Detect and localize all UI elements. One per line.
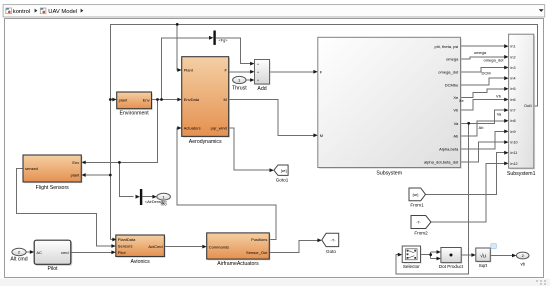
wire plant feedback loop (Subsystem1 Out1 to left rail)	[110, 24, 537, 239]
svg-text:AC: AC	[36, 250, 42, 255]
svg-text:Avionics: Avionics	[130, 259, 150, 265]
arrowhead into Goto	[317, 238, 321, 242]
arrowhead into Aerodynamics EnvData	[177, 98, 181, 102]
goto tag Goto1	[274, 165, 289, 182]
arrowhead into In6	[504, 98, 508, 102]
arrowhead into Add in3	[250, 78, 254, 82]
svg-text:Actuators: Actuators	[184, 126, 201, 131]
arrowhead into In5	[504, 87, 508, 91]
arrowhead into In3	[504, 66, 508, 70]
block Environment	[117, 92, 153, 117]
wire Aerodynamics M to Subsystem M	[229, 100, 315, 136]
svg-text:[wr]: [wr]	[413, 193, 419, 197]
wire phi theta psi to In1	[461, 45, 506, 47]
arrowhead into AirframeActuators Commands	[202, 245, 206, 249]
arrowhead into In2	[504, 55, 508, 59]
wire AirDensity selector to rho outport	[142, 196, 153, 198]
wire Alt cmd to Pilot AC	[26, 251, 31, 253]
svg-text:omega_dot: omega_dot	[483, 58, 504, 63]
junction on Va wire Selector tap	[467, 122, 470, 125]
svg-text:√u: √u	[480, 252, 486, 259]
arrowhead into Add in1	[250, 62, 254, 66]
wire Add output to Subsystem F	[270, 71, 315, 73]
arrowhead into Goto1	[270, 168, 274, 172]
wire Env bus to Aerodynamics EnvData	[152, 99, 179, 101]
wire plant rail to Avionics PlantData	[110, 239, 112, 241]
arrowhead into Pilot AC	[30, 250, 34, 254]
svg-text:cmd: cmd	[61, 250, 69, 255]
svg-text:Va: Va	[454, 121, 459, 126]
junction on Flight Sensors Env wire AirDensity tap	[118, 161, 121, 164]
wire From2 to In12	[431, 163, 505, 222]
svg-text:In7: In7	[510, 109, 515, 113]
wire Ab to In8	[461, 121, 506, 136]
svg-text:Thrust: Thrust	[232, 86, 247, 92]
svg-text:Dot Product: Dot Product	[439, 264, 464, 269]
wire Env bus up-tap to Fg selector	[162, 38, 211, 100]
svg-text:Alpha,beta: Alpha,beta	[439, 147, 459, 152]
wire Aerodynamics pqr_wind to Goto1	[229, 128, 271, 170]
svg-text:Vb: Vb	[453, 108, 459, 113]
badge next to Sqrt	[491, 244, 497, 249]
svg-text:Aerodynamics: Aerodynamics	[189, 139, 222, 145]
status strip below canvas	[0, 279, 550, 286]
svg-text:Goto: Goto	[326, 249, 336, 254]
block Subsystem	[318, 37, 462, 176]
wire Fg selector to Add in1	[216, 38, 252, 64]
svg-text:M: M	[320, 133, 323, 138]
svg-text:Positions: Positions	[251, 237, 267, 242]
wire Va to In7	[461, 110, 506, 123]
svg-text:Add: Add	[257, 86, 266, 92]
arrowhead into Avionics Sensors	[111, 244, 115, 248]
svg-text:In1: In1	[510, 45, 515, 49]
svg-text:alpha_dot,beta_dot: alpha_dot,beta_dot	[424, 159, 459, 164]
svg-text:<Fg>: <Fg>	[219, 38, 229, 43]
resize grip	[536, 280, 546, 285]
svg-text:Flight Sensors: Flight Sensors	[36, 185, 70, 191]
arrowhead into Subsystem F	[313, 70, 317, 74]
junction on plant feedback at Aerodynamics branch	[176, 23, 179, 26]
svg-text:In6: In6	[510, 98, 515, 102]
svg-text:EnvData: EnvData	[184, 97, 200, 102]
arrowhead into Environment plant	[112, 98, 116, 102]
block Avionics	[116, 235, 166, 265]
svg-text:-T-: -T-	[331, 238, 337, 243]
arrowhead into In10	[504, 140, 508, 144]
svg-text:Plant: Plant	[184, 68, 194, 73]
breadcrumb separator 2	[81, 9, 84, 13]
svg-text:Sqrt: Sqrt	[479, 263, 488, 268]
svg-text:Xe: Xe	[459, 98, 465, 103]
wire DCMbe to In4	[461, 78, 506, 85]
wire Selector out split to Dot Product	[421, 252, 438, 259]
arrowhead into Aerodynamics Actuators	[177, 126, 181, 130]
wire Thrust inport to Add in3	[246, 79, 251, 81]
svg-text:In11: In11	[510, 151, 517, 155]
outport 2 vb	[516, 252, 529, 266]
bus selector AirDensity	[140, 189, 168, 205]
svg-text:ActCmd: ActCmd	[148, 244, 162, 249]
block AirframeActuators	[207, 233, 271, 267]
junction on Env bus up-tap	[160, 98, 163, 101]
wire plant rail branch to Environment plant	[110, 99, 113, 101]
svg-text:Out1: Out1	[524, 104, 532, 108]
svg-text:In9: In9	[510, 130, 515, 134]
block Aerodynamics	[182, 57, 230, 145]
svg-text:vb: vb	[520, 262, 525, 267]
svg-text:omega: omega	[446, 57, 459, 62]
svg-text:AirframeActuators: AirframeActuators	[217, 261, 259, 267]
svg-text:In3: In3	[510, 66, 515, 70]
goto tag Goto	[322, 233, 339, 254]
wire Env bus down-tap to Flight Sensors Env	[85, 100, 158, 163]
svg-text:DCMbe: DCMbe	[445, 82, 459, 87]
arrowhead into Add in2	[250, 70, 254, 74]
arrowhead into Sqrt	[471, 253, 475, 257]
block Selector	[402, 246, 421, 269]
svg-text:DCM: DCM	[481, 70, 490, 75]
arrowhead into Dot Product in2	[437, 257, 441, 261]
block Add	[255, 60, 271, 93]
svg-text:Vb: Vb	[496, 94, 502, 99]
arrowhead into Aerodynamics Plant	[177, 68, 181, 72]
svg-text:+: +	[257, 71, 259, 75]
svg-text:plant: plant	[71, 173, 81, 178]
arrowhead into In7	[504, 108, 508, 112]
arrowhead into In4	[504, 76, 508, 80]
wire Avionics ActCmd to AirframeActuators Commands	[164, 246, 203, 248]
arrowhead into In1	[504, 44, 508, 48]
svg-text:+: +	[257, 79, 259, 83]
svg-text:In12: In12	[510, 162, 517, 166]
svg-text:From1: From1	[410, 203, 424, 208]
svg-text:Commands: Commands	[209, 244, 229, 249]
junction on Env bus down-tap	[156, 98, 159, 101]
arrowhead into vb outport	[512, 254, 516, 258]
svg-text:In10: In10	[510, 141, 517, 145]
svg-text:PlantData: PlantData	[118, 237, 136, 242]
block Flight Sensors	[23, 155, 83, 191]
from tag From1	[409, 188, 426, 208]
svg-text:In2: In2	[510, 55, 515, 59]
wire Sqrt to vb outport	[490, 255, 513, 257]
arrowhead into In12	[504, 162, 508, 166]
wire alpha_dot beta_dot to In10	[461, 142, 506, 162]
wire Dot Product to Sqrt	[461, 254, 472, 256]
outport 1 rho	[157, 193, 171, 206]
wire Positions feedback to Aerodynamics Actuators	[177, 128, 276, 240]
inport 2 Alt cmd	[10, 248, 27, 262]
arrowhead into Subsystem M	[313, 133, 317, 137]
arrowhead into In8	[504, 119, 508, 123]
wire omega to In2	[461, 57, 506, 59]
svg-text:Goto1: Goto1	[276, 177, 289, 182]
svg-text:omega_dot: omega_dot	[438, 70, 459, 75]
block Sqrt	[476, 248, 492, 268]
bus selector Fg	[213, 31, 228, 45]
svg-text:Subsystem: Subsystem	[376, 171, 402, 177]
breadcrumb model icon 1	[6, 8, 12, 14]
svg-text:Sensors: Sensors	[118, 244, 133, 249]
junction on plant rail at Flight Sensors branch	[109, 174, 112, 177]
svg-text:Alt cmd: Alt cmd	[10, 257, 27, 263]
breadcrumb model icon 2	[40, 8, 46, 14]
svg-text:Environment: Environment	[120, 111, 150, 117]
svg-text:omega: omega	[474, 50, 487, 55]
arrowhead into Avionics PlantData	[112, 238, 116, 242]
svg-text:rho: rho	[161, 202, 168, 207]
svg-text:Sensor_Out: Sensor_Out	[246, 250, 268, 255]
svg-text:Pilot: Pilot	[47, 266, 58, 272]
svg-text:Selector: Selector	[403, 264, 420, 269]
wire omega_dot to In3	[461, 68, 506, 73]
svg-text:pqr_wind: pqr_wind	[211, 126, 227, 131]
svg-text:phi, theta, psi: phi, theta, psi	[435, 44, 459, 49]
arrowhead into AirDensity bus selector	[136, 195, 140, 199]
svg-text:In5: In5	[510, 87, 515, 91]
block Dot Product	[439, 248, 464, 270]
svg-text:Ab: Ab	[479, 125, 485, 130]
svg-text:sensed: sensed	[25, 166, 38, 171]
arrowhead into Fg bus selector	[209, 36, 213, 40]
svg-text:From2: From2	[414, 230, 428, 235]
arrowhead into Flight Sensors plant	[81, 173, 85, 177]
svg-text:Env: Env	[72, 160, 79, 165]
junction on Selector output split	[429, 253, 432, 256]
wire Aerodynamics F to Add in2	[229, 71, 252, 73]
wire plant rail branch to Flight Sensors plant	[85, 174, 111, 176]
wire Vb to In6	[461, 100, 506, 111]
svg-text:In8: In8	[510, 119, 515, 123]
junction on plant rail at Environment branch	[109, 98, 112, 101]
wire plant rail branch to Aerodynamics Plant	[177, 24, 178, 70]
arrowhead into Dot Product in1	[437, 250, 441, 254]
svg-text:+: +	[257, 62, 259, 66]
arrowhead into Avionics Pilot	[111, 250, 115, 254]
arrowhead into Selector	[398, 253, 402, 257]
arrowhead into In11	[504, 151, 508, 155]
wire Alpha beta to In9	[461, 131, 506, 149]
svg-text:Subsystem1: Subsystem1	[507, 171, 536, 177]
wire From1 to In11	[426, 153, 506, 195]
svg-text:Va: Va	[497, 111, 502, 116]
wire Pilot cmd to Avionics Pilot	[71, 251, 113, 253]
svg-text:[wr]: [wr]	[281, 169, 287, 173]
arrowhead into In9	[504, 130, 508, 134]
wire Flight Sensors sensed to Avionics Sensors	[16, 169, 112, 246]
svg-text:M: M	[224, 97, 227, 102]
inport 1 Thrust	[232, 76, 247, 91]
breadcrumb bar	[3, 5, 545, 17]
svg-text:plant: plant	[119, 97, 129, 102]
arrowhead into Flight Sensors Env	[81, 161, 85, 165]
breadcrumb dropdown caret	[539, 9, 544, 12]
wire Xe to In5	[461, 89, 506, 98]
wire Env tap to AirDensity selector	[119, 162, 133, 196]
svg-text:In4: In4	[510, 77, 515, 81]
svg-text:Ab: Ab	[453, 134, 459, 139]
block Subsystem1	[507, 34, 536, 177]
svg-text:Pilot: Pilot	[118, 250, 127, 255]
arrowhead into rho outport	[152, 195, 156, 199]
breadcrumb separator 1	[35, 9, 38, 13]
wire Sensor_Out to Goto	[269, 240, 318, 252]
wire Va tap down to Selector	[396, 123, 469, 274]
svg-text:Env: Env	[143, 97, 150, 102]
svg-text:kontrol: kontrol	[13, 9, 30, 15]
block Pilot	[34, 240, 72, 272]
from tag From2	[411, 216, 431, 236]
svg-text:UAV Model: UAV Model	[48, 9, 77, 15]
